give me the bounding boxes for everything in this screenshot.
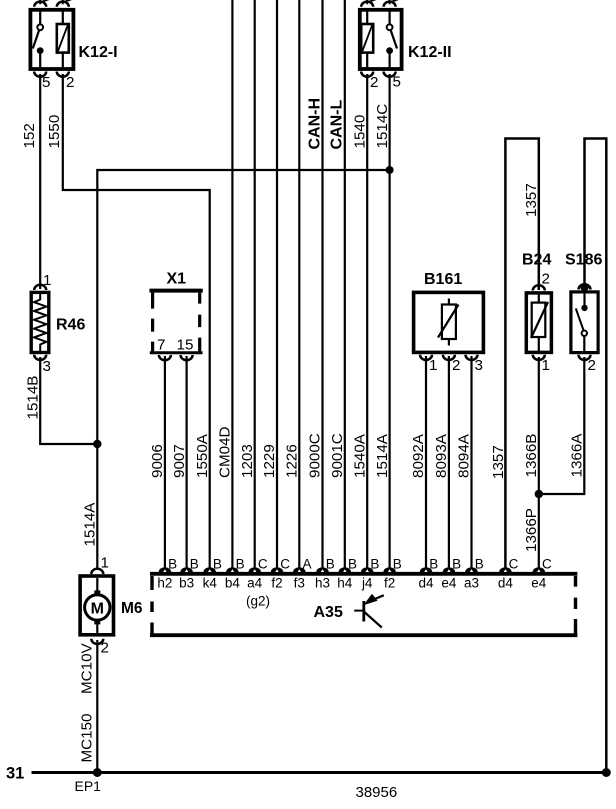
- svg-text:1229: 1229: [261, 444, 278, 478]
- svg-text:3: 3: [475, 357, 483, 374]
- svg-text:K12-I: K12-I: [79, 44, 118, 61]
- svg-text:B: B: [452, 557, 461, 572]
- connector X1: [150, 291, 203, 353]
- K12-I switch contact (pins 1-5): [33, 12, 44, 70]
- svg-text:CAN-L: CAN-L: [329, 100, 346, 150]
- svg-text:j4: j4: [361, 576, 373, 591]
- svg-text:1: 1: [101, 555, 109, 572]
- B161 pin 1 terminal: [420, 355, 432, 360]
- svg-text:31: 31: [6, 765, 24, 783]
- svg-text:B: B: [429, 557, 438, 572]
- svg-text:f3: f3: [294, 576, 305, 591]
- ECU A35 dashed box: [150, 574, 577, 635]
- A35 pin h3 terminal bump: [316, 567, 328, 572]
- svg-text:b3: b3: [179, 576, 194, 591]
- K12-I pin 2 terminal: [57, 72, 69, 77]
- X1 pin 7 terminal: [159, 355, 171, 360]
- junction dot MC150 at ground bus: [93, 768, 102, 777]
- svg-text:9001C: 9001C: [329, 433, 346, 478]
- svg-text:1540: 1540: [351, 115, 368, 149]
- svg-text:1550: 1550: [46, 115, 63, 149]
- svg-text:e4: e4: [531, 576, 547, 591]
- svg-text:(g2): (g2): [246, 594, 270, 609]
- R46 pin 1 terminal: [34, 285, 46, 290]
- K12-II switch contact (pins 1-5): [386, 12, 397, 70]
- svg-text:b4: b4: [225, 576, 241, 591]
- svg-text:38956: 38956: [356, 784, 398, 801]
- K12-II pin 2 terminal: [361, 72, 373, 77]
- junction dot 1514B joins 1514A: [93, 440, 101, 448]
- B24 sensor element: [531, 295, 548, 352]
- wire 1366P (junction to A35 pin e4): [538, 494, 540, 568]
- svg-text:C: C: [280, 557, 290, 572]
- svg-text:K12-II: K12-II: [408, 44, 452, 61]
- B24 pin 2 terminal: [533, 285, 545, 290]
- A35 pin f3 terminal bump: [293, 567, 305, 572]
- A35 pin k4 terminal bump: [204, 567, 216, 572]
- A35 pin b4 terminal bump: [226, 567, 238, 572]
- wire 1203 (top to A35 pin a4): [254, 0, 256, 568]
- A35 pin j4 terminal bump: [361, 567, 373, 572]
- A35 pin f2 terminal bump: [271, 567, 283, 572]
- svg-text:MC10V: MC10V: [79, 642, 96, 694]
- K12-I coil (pins 3-2): [57, 12, 69, 70]
- A35 pin d4 terminal bump: [420, 567, 432, 572]
- svg-text:1: 1: [429, 357, 437, 374]
- svg-text:h3: h3: [315, 576, 330, 591]
- svg-text:1357: 1357: [490, 445, 507, 479]
- wire 9007 (X1 pin 15 to A35 pin b3): [186, 356, 188, 568]
- wire 1514B (R46 pin 3 to junction): [40, 357, 97, 444]
- wire 1514C / 1514A (K12-II pin 5 to A35 pin f2): [389, 74, 391, 568]
- wire MC10V / MC150 (M6 pin 2 to ground bus): [96, 640, 98, 773]
- svg-text:9006: 9006: [149, 444, 166, 478]
- svg-text:9000C: 9000C: [307, 433, 324, 478]
- wire 1540 / 1540A (K12-II pin 2 to A35 pin j4): [366, 74, 368, 568]
- S186 top pin terminal: [579, 284, 591, 289]
- svg-text:8094A: 8094A: [456, 433, 473, 478]
- svg-text:1: 1: [43, 272, 51, 289]
- svg-text:B: B: [475, 557, 484, 572]
- svg-text:B161: B161: [424, 271, 462, 288]
- svg-text:1203: 1203: [239, 444, 256, 478]
- wire 1550 / 1550A (K12-I pin 2 to A35 pin k4): [63, 74, 210, 568]
- svg-text:2: 2: [542, 271, 550, 288]
- svg-text:a4: a4: [247, 576, 263, 591]
- svg-text:EP1: EP1: [75, 778, 102, 794]
- X1 pin 15 terminal: [181, 355, 193, 360]
- junction dot right leg at ground bus: [602, 768, 611, 777]
- svg-text:h2: h2: [157, 576, 172, 591]
- svg-text:1514B: 1514B: [25, 376, 42, 420]
- resistor R46: [31, 292, 49, 352]
- B161 pin 2 terminal: [443, 355, 455, 360]
- motor M6: [80, 576, 113, 635]
- svg-text:f2: f2: [271, 576, 282, 591]
- svg-text:C: C: [542, 557, 552, 572]
- A35 pin e4 terminal bump: [443, 567, 455, 572]
- wire 1366B (B24 pin 1 to junction): [538, 357, 540, 494]
- wire 8094A (B161 pin 3 to A35 pin a3): [470, 356, 472, 568]
- switch S186: [571, 292, 598, 353]
- svg-text:A: A: [303, 557, 312, 572]
- svg-text:X1: X1: [167, 271, 187, 288]
- A35 pin f2 terminal bump: [383, 567, 395, 572]
- svg-text:7: 7: [157, 337, 165, 354]
- svg-text:C: C: [258, 557, 268, 572]
- sensor B161: [414, 292, 484, 352]
- A35 pin d4 terminal bump: [499, 567, 511, 572]
- svg-text:MC150: MC150: [79, 714, 96, 763]
- svg-text:B: B: [348, 557, 357, 572]
- B24 pin 1 terminal: [533, 355, 545, 360]
- svg-text:2: 2: [66, 74, 74, 91]
- wire 8093A (B161 pin 2 to A35 pin e4): [448, 356, 450, 568]
- svg-text:f2: f2: [384, 576, 395, 591]
- svg-text:1357: 1357: [523, 183, 540, 217]
- svg-text:d4: d4: [418, 576, 434, 591]
- svg-text:9007: 9007: [171, 444, 188, 478]
- svg-text:2: 2: [370, 74, 378, 91]
- S186 pin 2 terminal: [579, 355, 591, 360]
- svg-text:a3: a3: [464, 576, 479, 591]
- wire 1229 (top to A35 pin f2): [276, 0, 278, 568]
- svg-text:e4: e4: [441, 576, 457, 591]
- svg-text:1366A: 1366A: [569, 433, 586, 478]
- svg-text:B: B: [370, 557, 379, 572]
- K12-II coil (pins 3-2): [361, 12, 373, 70]
- S186 switch element: [576, 294, 588, 352]
- ground bus 31: [32, 771, 608, 774]
- svg-text:8093A: 8093A: [433, 433, 450, 478]
- wire 9006 (X1 pin 7 to A35 pin h2): [164, 356, 166, 568]
- K12-II pin 1 terminal (cut at top): [384, 0, 399, 7]
- svg-text:k4: k4: [203, 576, 218, 591]
- wire CM04D (top to A35 pin b4): [231, 0, 233, 568]
- K12-I pin 5 terminal: [34, 72, 46, 77]
- wire 9000C CAN-H (top to A35 pin h3): [321, 0, 323, 568]
- svg-text:1514A: 1514A: [374, 433, 391, 478]
- svg-text:C: C: [509, 557, 519, 572]
- svg-text:1550A: 1550A: [194, 433, 211, 478]
- K12-I pin 1 terminal (cut at top): [34, 0, 49, 7]
- wire 152 (K12-I pin 5 to R46 pin 1): [39, 74, 41, 289]
- A35 pin b3 terminal bump: [180, 567, 192, 572]
- svg-text:8092A: 8092A: [410, 433, 427, 478]
- svg-text:152: 152: [21, 123, 38, 148]
- svg-text:B: B: [326, 557, 335, 572]
- K12-II pin 3 terminal (cut at top): [361, 0, 376, 7]
- wire 1514A branch (junction to M6 pin 1): [97, 170, 389, 570]
- wire 1226 (top to A35 pin f3): [298, 0, 300, 568]
- svg-text:1514A: 1514A: [81, 502, 98, 547]
- S186 top pin junction dot: [580, 283, 588, 291]
- M6 pin 2 terminal: [91, 639, 103, 644]
- svg-text:B: B: [213, 557, 222, 572]
- A35 pin a3 terminal bump: [465, 567, 477, 572]
- junction dot at 1514A tap: [386, 166, 394, 174]
- svg-text:h4: h4: [337, 576, 353, 591]
- A35 pin h2 terminal bump: [159, 567, 171, 572]
- svg-text:A35: A35: [314, 604, 343, 621]
- svg-text:3: 3: [43, 358, 51, 375]
- svg-text:d4: d4: [498, 576, 514, 591]
- svg-text:5: 5: [393, 74, 401, 91]
- svg-text:15: 15: [177, 337, 194, 354]
- svg-text:M6: M6: [121, 600, 143, 617]
- K12-I pin 3 terminal (cut at top): [57, 0, 72, 7]
- svg-text:1366P: 1366P: [523, 508, 540, 552]
- A35 pin h4 terminal bump: [339, 567, 351, 572]
- svg-text:1226: 1226: [284, 444, 301, 478]
- R46 pin 3 terminal: [34, 355, 46, 360]
- svg-text:1514C: 1514C: [374, 104, 391, 149]
- wire 1357 (A35 pin d4 up and over to B24 pin 2): [505, 139, 538, 569]
- svg-text:1366B: 1366B: [523, 434, 540, 478]
- K12-II pin 5 terminal: [384, 72, 396, 77]
- svg-text:B: B: [393, 557, 402, 572]
- A35 transistor symbol: [354, 594, 384, 628]
- svg-text:1: 1: [542, 357, 550, 374]
- B161 pin 3 terminal: [466, 355, 478, 360]
- svg-text:R46: R46: [56, 317, 85, 334]
- svg-text:B: B: [190, 557, 199, 572]
- svg-text:CAN-H: CAN-H: [306, 98, 323, 150]
- relay K12-I: [30, 10, 73, 69]
- relay K12-II: [360, 10, 402, 69]
- wire 9001C CAN-L (top to A35 pin h4): [344, 0, 346, 568]
- B161 sensor element: [438, 299, 459, 346]
- wire 1366A (S186 pin 2 to junction): [539, 357, 585, 494]
- svg-text:B: B: [168, 557, 177, 572]
- svg-text:B: B: [236, 557, 245, 572]
- svg-text:5: 5: [42, 74, 50, 91]
- wire 8092A (B161 pin 1 to A35 pin d4): [425, 356, 427, 568]
- A35 pin a4 terminal bump: [249, 567, 261, 572]
- M6 motor symbol: [85, 578, 110, 633]
- svg-text:CM04D: CM04D: [217, 426, 234, 478]
- junction dot 1366 wires: [535, 490, 543, 498]
- svg-text:M: M: [91, 601, 104, 618]
- svg-text:2: 2: [452, 357, 460, 374]
- A35 pin e4 terminal bump: [533, 567, 545, 572]
- svg-text:2: 2: [101, 640, 109, 657]
- wire S186 top to ground bus (up over and down right edge): [585, 139, 607, 773]
- R46 zigzag element: [34, 292, 46, 352]
- sensor B24: [526, 293, 551, 353]
- M6 pin 1 terminal: [91, 569, 103, 574]
- svg-text:B24: B24: [522, 252, 551, 269]
- svg-text:1540A: 1540A: [351, 433, 368, 478]
